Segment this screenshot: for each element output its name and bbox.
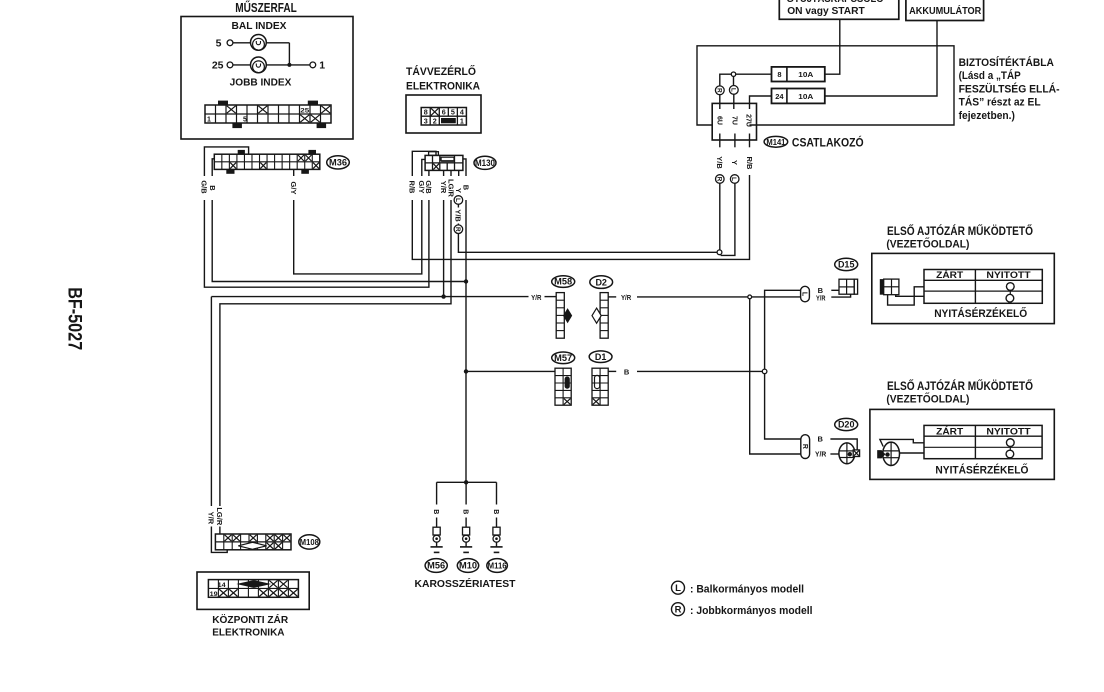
svg-text:D1: D1: [595, 352, 607, 362]
svg-text:G/Y: G/Y: [289, 182, 298, 195]
svg-text:TÁVVEZÉRLŐ: TÁVVEZÉRLŐ: [406, 65, 476, 78]
svg-text:R: R: [801, 444, 808, 449]
svg-text:(VEZETŐOLDAL): (VEZETŐOLDAL): [886, 237, 969, 250]
svg-text:NYITÁSÉRZÉKELŐ: NYITÁSÉRZÉKELŐ: [934, 307, 1027, 320]
svg-text:R: R: [454, 227, 461, 232]
svg-text:MŰSZERFAL: MŰSZERFAL: [235, 0, 297, 15]
svg-text:ELSŐ AJTÓZÁR MŰKÖDTETŐ: ELSŐ AJTÓZÁR MŰKÖDTETŐ: [887, 225, 1033, 238]
svg-text:M10: M10: [459, 561, 477, 571]
svg-text:Y/B: Y/B: [715, 156, 724, 169]
svg-text:(VEZETŐOLDAL): (VEZETŐOLDAL): [886, 392, 969, 405]
svg-text:ZÁRT: ZÁRT: [936, 270, 963, 281]
svg-text:: Jobbkormányos modell: : Jobbkormányos modell: [690, 605, 813, 617]
svg-text:L: L: [729, 88, 736, 92]
svg-text:GYÚJTÁSKAPCSOLÓ: GYÚJTÁSKAPCSOLÓ: [787, 0, 884, 5]
svg-text:M36: M36: [329, 158, 347, 168]
svg-text:G/B: G/B: [200, 180, 209, 194]
svg-text:KAROSSZÉRIATEST: KAROSSZÉRIATEST: [415, 577, 517, 590]
svg-text:Y: Y: [730, 160, 739, 165]
svg-text:Y/R: Y/R: [621, 293, 632, 302]
svg-text:5: 5: [216, 37, 222, 49]
svg-text:1: 1: [460, 116, 464, 125]
svg-text:ELSŐ AJTÓZÁR MŰKÖDTETŐ: ELSŐ AJTÓZÁR MŰKÖDTETŐ: [887, 380, 1033, 393]
svg-text:JOBB INDEX: JOBB INDEX: [230, 76, 292, 88]
svg-text:L: L: [675, 583, 681, 594]
svg-text:8: 8: [424, 108, 428, 117]
svg-text:TÁS” részt az EL: TÁS” részt az EL: [959, 96, 1042, 109]
svg-text:G/B: G/B: [424, 180, 433, 194]
svg-text:L: L: [730, 177, 737, 181]
svg-text:ON vagy START: ON vagy START: [787, 5, 865, 17]
svg-text:10A: 10A: [798, 92, 814, 101]
svg-text:5: 5: [451, 108, 455, 117]
svg-text:Y/R: Y/R: [531, 293, 542, 302]
svg-text:25: 25: [212, 60, 224, 72]
svg-text:NYITOTT: NYITOTT: [986, 426, 1031, 437]
svg-text:R: R: [715, 177, 722, 182]
svg-text:fejezetben.): fejezetben.): [959, 110, 1015, 122]
svg-text:2: 2: [433, 116, 437, 125]
svg-text:Y/R: Y/R: [207, 512, 216, 525]
svg-text:M58: M58: [554, 277, 572, 287]
svg-text:R: R: [675, 605, 682, 616]
svg-text:D15: D15: [838, 260, 855, 270]
svg-text:D20: D20: [838, 420, 855, 430]
svg-text:ELEKTRONIKA: ELEKTRONIKA: [406, 80, 480, 92]
svg-text:B: B: [492, 509, 499, 514]
svg-text:7U: 7U: [730, 116, 737, 125]
svg-text:19: 19: [210, 591, 218, 598]
svg-text:B: B: [461, 185, 470, 191]
svg-text:CSATLAKOZÓ: CSATLAKOZÓ: [792, 136, 864, 149]
svg-text:L: L: [801, 292, 808, 297]
svg-text:3: 3: [424, 116, 428, 125]
svg-text:R/B: R/B: [408, 181, 417, 195]
svg-text:NYITÁSÉRZÉKELŐ: NYITÁSÉRZÉKELŐ: [935, 463, 1028, 476]
svg-text:B: B: [624, 367, 630, 376]
svg-text:B: B: [462, 509, 469, 514]
svg-text:B: B: [208, 185, 217, 191]
svg-text:M116: M116: [488, 561, 507, 571]
svg-text:6: 6: [442, 108, 446, 117]
svg-text:AKKUMULÁTOR: AKKUMULÁTOR: [909, 4, 982, 17]
svg-text:M130: M130: [475, 158, 495, 168]
svg-text:L: L: [454, 198, 461, 202]
svg-text:8: 8: [777, 70, 781, 79]
svg-text:1: 1: [319, 60, 325, 72]
svg-text:5: 5: [243, 117, 247, 124]
svg-text:BIZTOSÍTÉKTÁBLA: BIZTOSÍTÉKTÁBLA: [959, 56, 1055, 69]
svg-text:BAL INDEX: BAL INDEX: [232, 20, 287, 32]
svg-text:M141: M141: [766, 138, 786, 147]
svg-text:M57: M57: [554, 353, 572, 363]
svg-text:KÖZPONTI ZÁR: KÖZPONTI ZÁR: [212, 613, 288, 626]
svg-text:14: 14: [218, 582, 226, 589]
svg-text:10A: 10A: [798, 70, 814, 79]
svg-text:ELEKTRONIKA: ELEKTRONIKA: [212, 626, 285, 638]
svg-text:NYITOTT: NYITOTT: [986, 270, 1031, 281]
svg-text:Y/B: Y/B: [454, 209, 463, 222]
svg-text:ZÁRT: ZÁRT: [936, 426, 963, 437]
svg-text:1: 1: [207, 117, 211, 124]
svg-text:BF-5027: BF-5027: [63, 287, 85, 350]
svg-text:25: 25: [300, 107, 309, 114]
svg-text:LG/R: LG/R: [215, 507, 224, 525]
svg-text:4: 4: [460, 108, 464, 117]
svg-text:R/B: R/B: [745, 157, 754, 171]
svg-text:R: R: [715, 88, 722, 93]
svg-text:M56: M56: [427, 561, 445, 571]
svg-text:B: B: [432, 509, 439, 514]
svg-text:: Balkormányos modell: : Balkormányos modell: [690, 583, 804, 595]
svg-text:M108: M108: [300, 537, 319, 547]
svg-text:B: B: [817, 434, 823, 443]
svg-text:LG/R: LG/R: [446, 179, 455, 197]
svg-text:24: 24: [775, 92, 784, 101]
svg-text:6U: 6U: [715, 116, 722, 125]
svg-text:Y/R: Y/R: [815, 450, 827, 459]
svg-text:Y/R: Y/R: [816, 293, 826, 302]
svg-text:FESZÜLTSÉG ELLÁ-: FESZÜLTSÉG ELLÁ-: [959, 82, 1060, 95]
svg-text:(Lásd a „TÁP: (Lásd a „TÁP: [959, 69, 1021, 82]
svg-text:D2: D2: [595, 277, 607, 287]
